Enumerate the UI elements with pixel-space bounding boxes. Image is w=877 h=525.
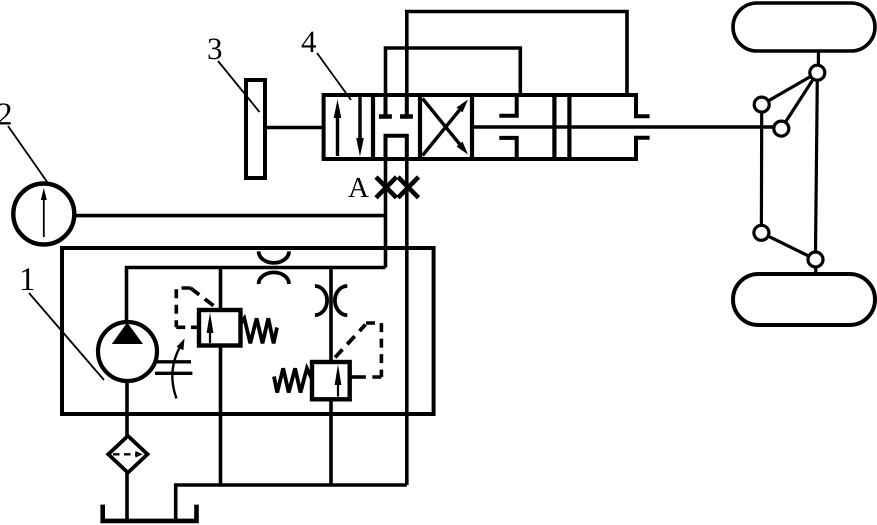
valve box1 down arrow [356,97,364,157]
valve position divider 2 [418,95,422,159]
RV1 pilot dashed box [176,288,191,327]
link J4-J5 [768,236,808,256]
steering wheel 3 [246,80,265,178]
svg-text:2: 2 [0,96,13,132]
RV2 branch wire bottom [329,399,333,485]
valve U1 body outline with right end cap [324,95,650,159]
link J1-J3 [786,80,813,122]
wire: filter to tank [125,473,129,521]
valve position divider 1 [371,95,375,159]
valve box3 crossed arrow 2 [423,99,469,155]
steering joint J2 [754,97,769,112]
cylinder piston line 1 [552,95,556,159]
pump variable control curved arrow [172,339,184,399]
cylinder left port bracket top [499,95,516,116]
wire: pump output channel [127,268,386,322]
leader line for 4 [317,53,351,100]
enclosure block [62,248,434,414]
wire: steering wheel link to valve [265,126,324,130]
filter F1 [108,436,147,473]
wire: bottom wheel stub [814,267,817,274]
valve box2 blocked port T right [400,95,413,117]
RV1 pilot solid stub [191,325,199,329]
cylinder piston line 2 [567,95,571,159]
cylinder piston rod [472,125,774,129]
RV1 spring [241,318,278,343]
valve position divider 3 [470,95,474,159]
throttle on channel [259,251,289,263]
wire: inner pilot loop valve-to-cylinder [386,48,521,95]
relief valve RV1 branch wire bottom [219,346,223,486]
wheel front (top) [733,3,875,51]
wire: line B from valve down to tank manifold [405,159,409,485]
RV2 pilot dashed box [362,323,381,377]
wire: outer pilot loop valve-to-cylinder [407,12,627,96]
node A test point X left [376,177,397,198]
steering joint J1 [810,65,825,80]
leader line for 1 [29,293,104,380]
relief valve RV2 branch wire top [329,268,333,363]
link J1-J5 [816,80,818,252]
link J2-J4 [760,112,763,225]
leader line for 3 [218,61,260,112]
valve box1 up arrow [334,100,342,157]
pump 1 [98,322,157,381]
svg-text:4: 4 [301,24,317,59]
wire: pump inlet down to filter [125,381,129,436]
steering joint J4 [754,225,769,240]
svg-text:3: 3 [207,31,223,66]
wire: top wheel stub [817,51,820,66]
steering joint J3 [774,121,789,136]
relief valve RV2 [312,362,350,399]
relief valve RV1 branch wire top [219,268,223,311]
svg-text:A: A [348,172,369,204]
pump shaft line 2 [155,372,192,375]
RV2 spring [274,368,312,392]
wheel rear (bottom) [733,274,875,325]
RV1 pilot dashed diagonal [191,288,219,310]
svg-text:1: 1 [19,262,36,298]
wire: line A from valve down to channel [384,159,388,268]
pressure gauge 2 [13,184,74,245]
steering joint J5 [808,252,823,267]
RV2 pilot dashed diagonal [335,325,366,358]
relief valve RV1 [199,310,241,346]
valve box3 crossed arrow 1 [423,100,469,156]
link J1-J2 [768,76,811,101]
cylinder left port bracket bottom [499,138,516,159]
valve box2 bottom bridge [386,136,407,159]
throttle on RV2 branch [315,286,327,315]
wire: pressure gauge pipe [75,214,386,218]
node A test point X right [398,177,419,198]
tank T1 [103,505,197,521]
wire: tank return manifold [176,485,407,520]
pump shaft line 1 [155,360,191,363]
leader line for 2 [8,126,49,184]
RV2 pilot solid stub [350,375,363,379]
valve box2 blocked port T left [379,95,392,117]
